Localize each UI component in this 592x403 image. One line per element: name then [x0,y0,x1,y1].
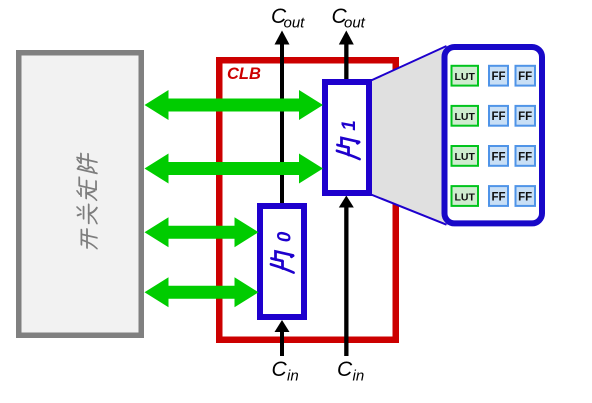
FF cell row 2 col 2 [516,106,536,126]
slice 1 label 片 1 [337,120,360,159]
svg-text:LUT: LUT [454,191,475,203]
svg-text:FF: FF [518,151,532,163]
svg-text:1: 1 [339,120,360,131]
svg-text:FF: FF [491,151,505,163]
magnifier callout trapezoid fill [371,46,448,226]
CLB block outline [219,60,396,340]
svg-text:out: out [284,14,306,31]
LUT cell row 3 [452,146,479,166]
wire: left carry chain vertical segment (slice 0 top to Cout arrow) [280,42,284,205]
slice 0 box [260,206,304,317]
svg-text:FF: FF [518,192,532,204]
bus arrow 1: switch matrix ↔ slice 1 (upper) [145,90,324,120]
magnifier callout bottom edge [371,195,447,225]
switch matrix label 开关矩阵 (rotated 90°) [77,151,97,250]
svg-text:in: in [287,368,299,385]
arrowhead: Cout left [275,31,290,45]
FF cell row 3 col 2 [516,146,536,166]
magnifier callout top edge [371,46,447,81]
svg-text:FF: FF [518,111,532,123]
LUT cell row 2 [452,106,479,126]
arrowhead: Cout right [339,31,354,45]
svg-text:FF: FF [491,192,505,204]
svg-text:C: C [337,358,353,381]
svg-text:0: 0 [274,231,295,242]
FF cell row 4 col 1 [489,186,508,206]
switch matrix block (开关矩阵) [19,53,142,336]
FF cell row 4 col 2 [516,186,536,206]
LUT cell row 4 [452,186,479,206]
FF cell row 1 col 2 [516,66,536,86]
FF cell row 2 col 1 [489,106,508,126]
bus arrow 3: switch matrix ↔ slice 0 (upper) [145,217,259,247]
svg-text:CLB: CLB [227,65,261,83]
slice 1 box [325,82,369,193]
svg-text:FF: FF [518,71,532,83]
svg-text:LUT: LUT [454,151,475,163]
svg-text:FF: FF [491,111,505,123]
arrowhead: Cin into slice 1 bottom [339,196,354,208]
wire: right carry chain vertical segment (slice 1 top to Cout arrow) [344,42,348,81]
slice detail zoom box [445,47,543,223]
svg-text:in: in [353,368,365,385]
bus arrow 4: switch matrix ↔ slice 0 (lower) [145,277,259,307]
svg-text:FF: FF [491,71,505,83]
slice 0 label 片 0 [271,231,295,272]
svg-text:out: out [344,14,366,31]
svg-text:LUT: LUT [454,111,475,123]
LUT cell row 1 [452,66,479,86]
wire: left Cin bottom segment [280,330,284,356]
svg-text:C: C [272,358,288,381]
arrowhead: Cin into slice 0 bottom [275,320,290,332]
FF cell row 3 col 1 [489,146,508,166]
wire: right Cin bottom segment [344,206,348,357]
svg-text:LUT: LUT [454,71,475,83]
bus arrow 2: switch matrix ↔ slice 1 (lower) [145,154,324,184]
FF cell row 1 col 1 [489,66,508,86]
